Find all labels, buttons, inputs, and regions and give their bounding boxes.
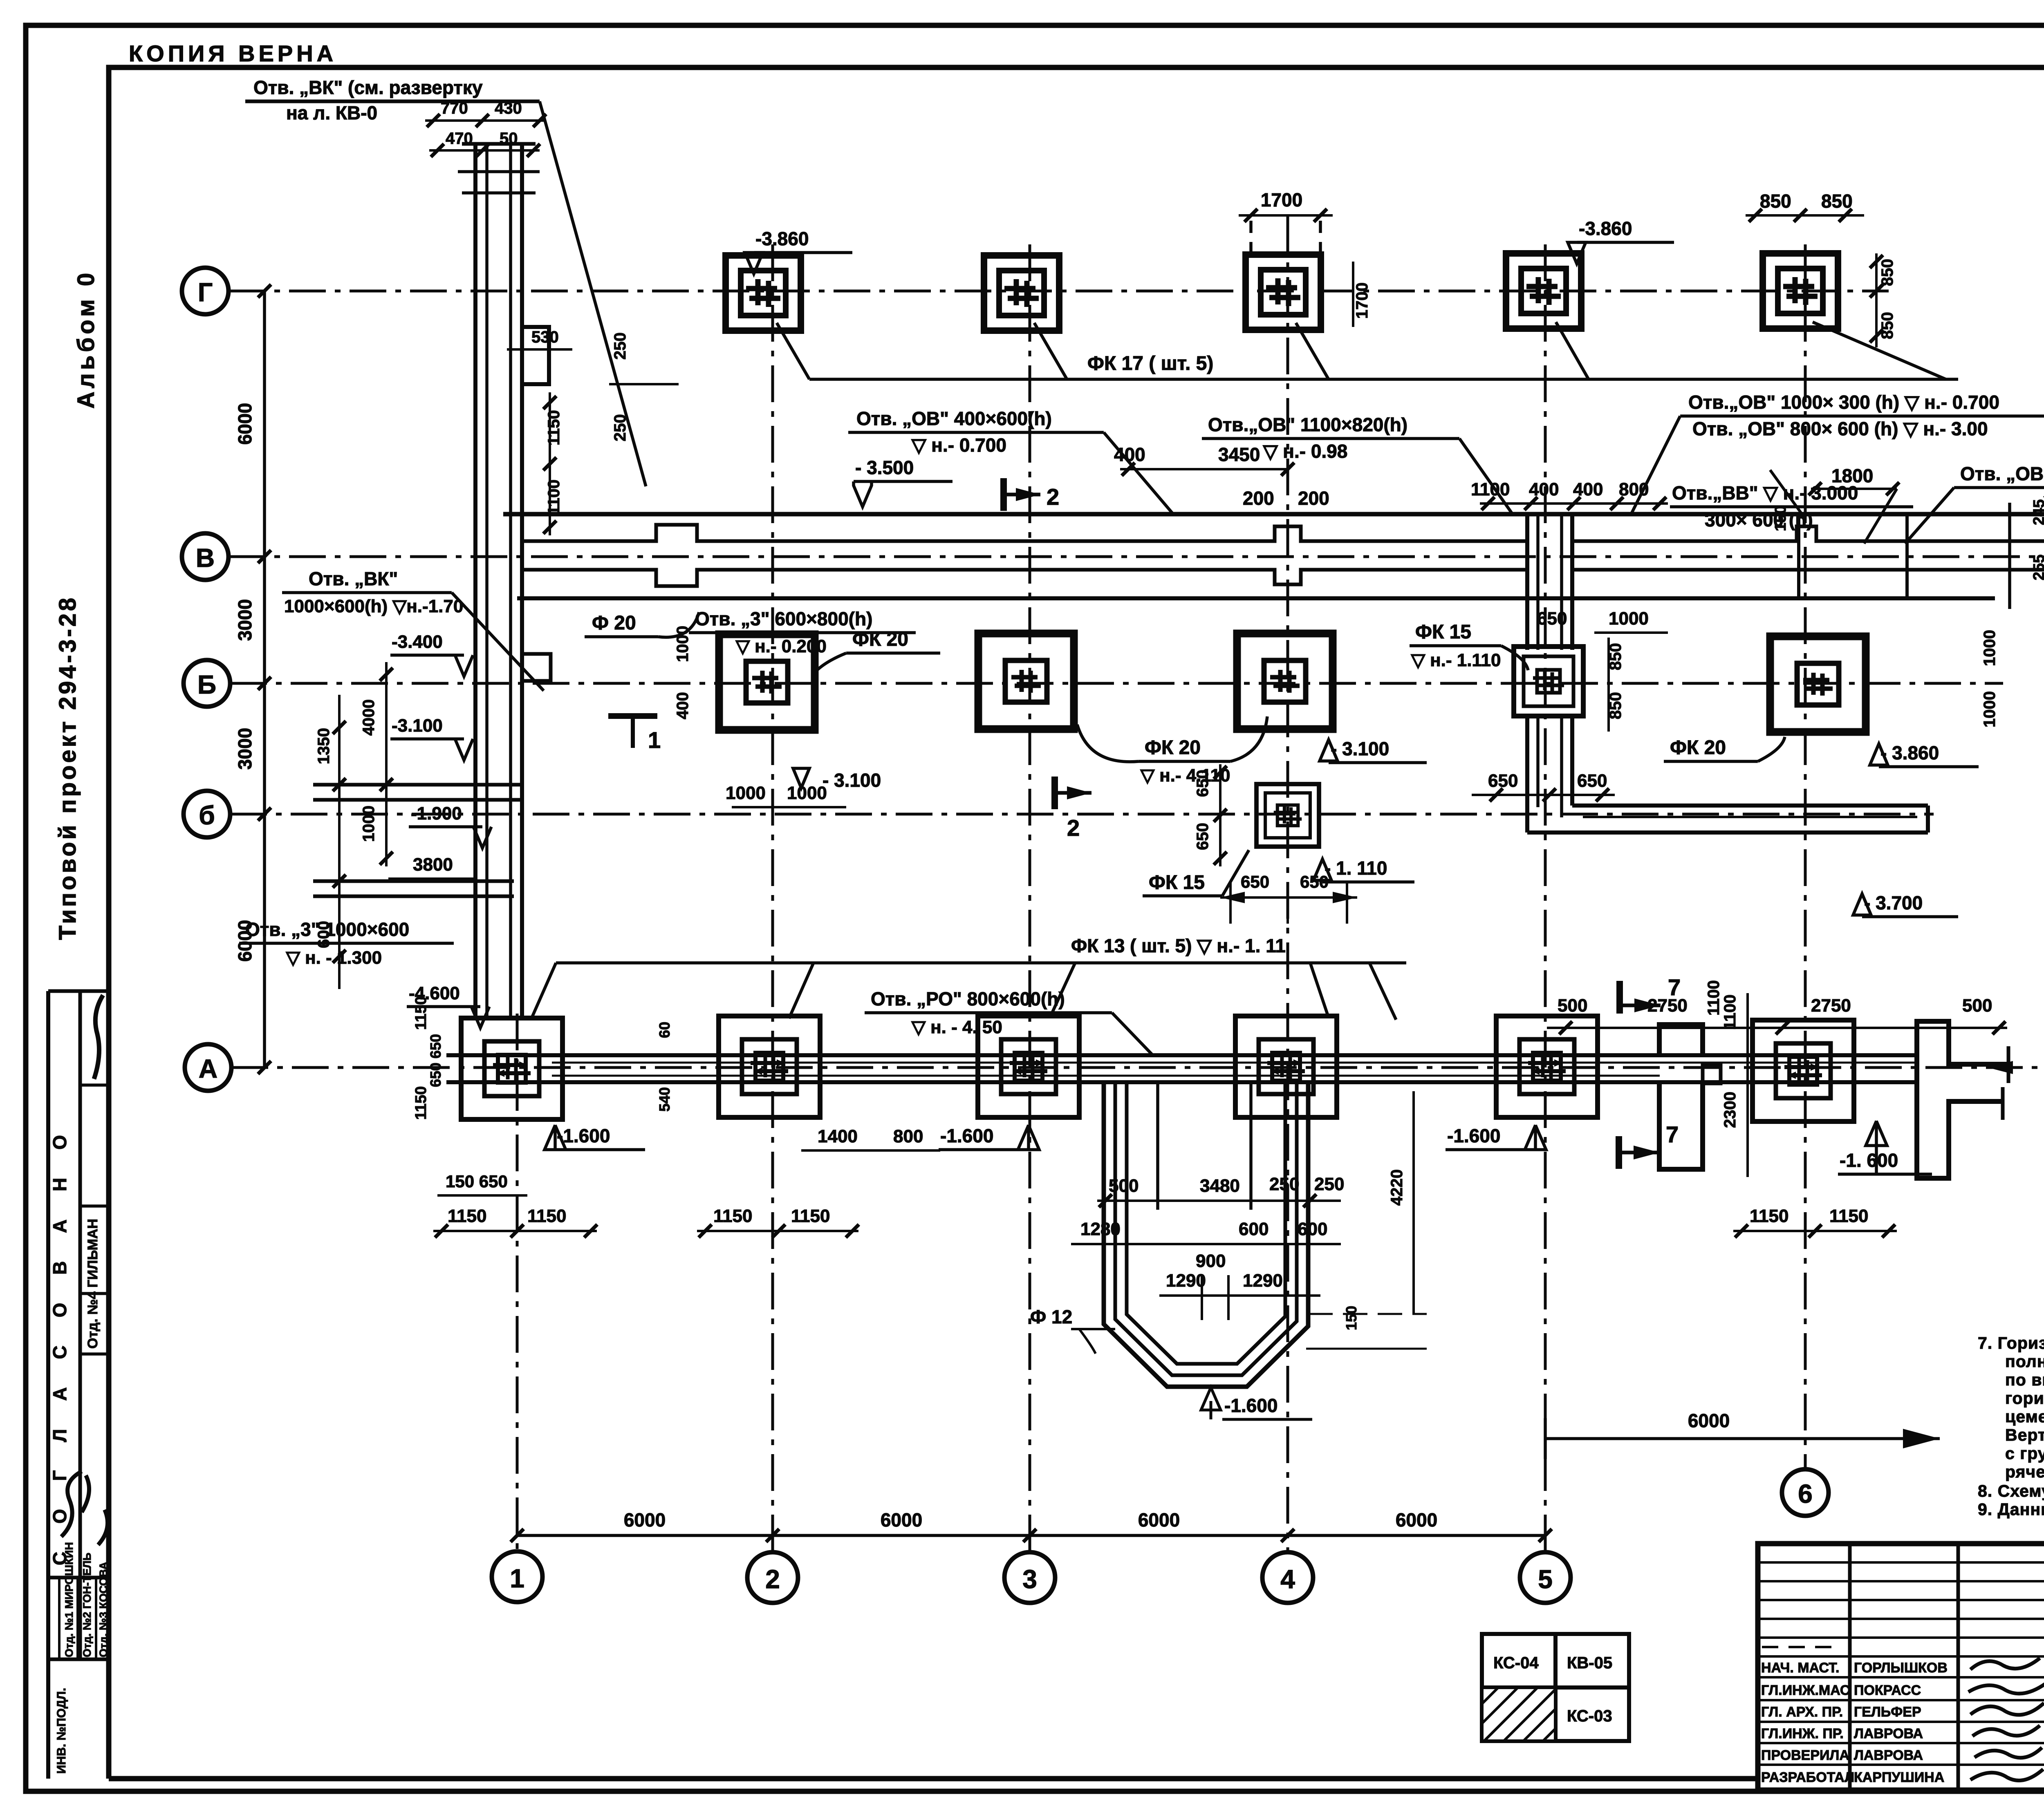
axis circle В	[182, 533, 229, 580]
svg-text:8. Схему, нормативных нагрузок: 8. Схему, нормативных нагрузок на фундам…	[1978, 1482, 2044, 1500]
svg-text:600: 600	[1298, 1219, 1327, 1239]
row В wall lower footing line	[517, 596, 1995, 600]
svg-text:250: 250	[611, 414, 629, 441]
svg-text:430: 430	[495, 99, 522, 117]
svg-text:800: 800	[893, 1126, 923, 1146]
pier Г/3 ФК17	[984, 255, 1059, 331]
wall notch at row Б junction	[522, 654, 551, 681]
svg-text:400: 400	[1529, 479, 1559, 499]
svg-text:Отв. „ОВ" и „3" 1800×400(h): Отв. „ОВ" и „3" 1800×400(h)	[1960, 463, 2044, 484]
svg-text:1000: 1000	[787, 783, 827, 803]
svg-text:ГЕЛЬФЕР: ГЕЛЬФЕР	[1854, 1704, 1921, 1720]
svg-text:КС-03: КС-03	[1567, 1707, 1612, 1725]
svg-text:на л. КВ-0: на л. КВ-0	[286, 102, 377, 123]
svg-text:150: 150	[1343, 1306, 1360, 1330]
pier Г/2 ФК17	[726, 255, 801, 331]
T-wall 2 end ticks	[2007, 1046, 2010, 1083]
svg-text:7: 7	[1666, 1121, 1679, 1147]
left dimension chain line	[263, 291, 266, 1068]
pier А/5	[1496, 1016, 1598, 1117]
axis 4 dashed extension	[1249, 221, 1253, 262]
section mark 2 upper	[1000, 478, 1007, 511]
svg-text:Отв. „3" 600×800(h): Отв. „3" 600×800(h)	[695, 608, 872, 629]
pier А/2	[719, 1016, 820, 1117]
pier Б/4 ФК20	[1237, 633, 1333, 729]
axis circle А	[185, 1044, 231, 1091]
svg-text:1100: 1100	[545, 479, 563, 515]
svg-text:Альбом 0: Альбом 0	[73, 270, 99, 409]
svg-text:60: 60	[656, 1022, 673, 1038]
svg-text:500: 500	[1962, 996, 1992, 1016]
svg-text:4220: 4220	[1388, 1169, 1406, 1206]
left row lines	[1758, 1561, 2044, 1564]
section mark 7 lower	[1616, 1136, 1622, 1169]
svg-text:1150: 1150	[713, 1206, 752, 1226]
pier А/1	[461, 1018, 563, 1119]
row б' wall band	[1527, 806, 1928, 833]
svg-text:250: 250	[1314, 1174, 1344, 1194]
pier А/4	[1235, 1016, 1337, 1117]
svg-text:ФК 20: ФК 20	[852, 629, 908, 650]
svg-text:650: 650	[1537, 609, 1567, 629]
svg-text:1290: 1290	[1243, 1271, 1283, 1291]
svg-text:7. Горизонтальную гидроизоляци: 7. Горизонтальную гидроизоляцию кирпичны…	[1978, 1334, 2044, 1352]
legend hatched cell	[1484, 1689, 1554, 1739]
svg-text:горизонтальная гидроизоляция: горизонтальная гидроизоляция стен подвал…	[2005, 1389, 2044, 1408]
wall opening at axis 6 row В	[1797, 514, 1800, 598]
axis circle 4	[1262, 1552, 1313, 1603]
axis Б line	[230, 682, 2003, 685]
axis 5 line	[1544, 244, 1547, 1551]
svg-text:-1.600: -1.600	[1224, 1395, 1277, 1416]
svg-text:1150: 1150	[412, 996, 430, 1030]
svg-text:1280: 1280	[1080, 1219, 1121, 1239]
svg-text:- 3.860: - 3.860	[1880, 742, 1939, 763]
svg-text:1: 1	[648, 727, 661, 753]
svg-text:ФК 20: ФК 20	[1145, 737, 1201, 759]
svg-text:6000: 6000	[1396, 1509, 1437, 1531]
svg-text:1150: 1150	[791, 1206, 830, 1226]
svg-text:2: 2	[765, 1564, 780, 1594]
bottom dimension chain line	[517, 1534, 1545, 1537]
svg-text:850: 850	[1878, 312, 1896, 339]
pier Г/6 ФК17	[1763, 253, 1838, 329]
svg-text:6000: 6000	[881, 1509, 922, 1531]
svg-text:-1.900: -1.900	[411, 803, 462, 824]
svg-text:2300: 2300	[1721, 1092, 1739, 1128]
short walls left of strip between Б and б'	[313, 785, 520, 896]
svg-text:ГЛ. АРХ. ПР.: ГЛ. АРХ. ПР.	[1761, 1704, 1843, 1720]
svg-text:- 3.500: - 3.500	[855, 457, 914, 478]
axis б' line	[230, 813, 1934, 816]
section mark 1	[608, 713, 657, 719]
svg-text:▽ н.- 0.200: ▽ н.- 0.200	[735, 636, 827, 656]
left vertical wall strip near axis 1	[458, 144, 540, 1018]
axis circle Б	[184, 660, 230, 707]
dashed row	[1762, 1646, 1840, 1648]
svg-text:400: 400	[1114, 444, 1145, 465]
svg-text:Отд. №2 ГОН-ТЕЛЬ: Отд. №2 ГОН-ТЕЛЬ	[81, 1553, 93, 1657]
svg-text:500: 500	[1109, 1176, 1139, 1196]
svg-text:2750: 2750	[1811, 996, 1851, 1016]
svg-text:- 3.700: - 3.700	[1864, 892, 1923, 913]
svg-text:▽ н.- 1.110: ▽ н.- 1.110	[1411, 650, 1501, 670]
svg-text:1700: 1700	[1261, 189, 1302, 210]
signatures squiggles	[1968, 1658, 2044, 1781]
svg-text:3480: 3480	[1200, 1176, 1240, 1196]
axis circle 2	[747, 1552, 798, 1603]
svg-text:2: 2	[1047, 484, 1059, 510]
leaders from Г piers	[777, 322, 1946, 379]
svg-text:ГЛ.ИНЖ.МАС: ГЛ.ИНЖ.МАС	[1761, 1683, 1850, 1698]
svg-text:-3.860: -3.860	[1579, 218, 1632, 239]
svg-text:КАРПУШИНА: КАРПУШИНА	[1854, 1770, 1944, 1785]
svg-text:1400: 1400	[818, 1126, 858, 1146]
svg-text:Отв. „РО" 800×600(h): Отв. „РО" 800×600(h)	[871, 988, 1065, 1009]
svg-text:850: 850	[1878, 259, 1896, 286]
svg-text:ФК 17 ( шт. 5): ФК 17 ( шт. 5)	[1087, 353, 1213, 374]
svg-text:Ф 20: Ф 20	[592, 612, 636, 634]
svg-text:1000: 1000	[726, 783, 766, 803]
svg-text:2: 2	[1067, 815, 1080, 841]
svg-text:ФК 20: ФК 20	[1670, 737, 1726, 759]
svg-text:255: 255	[2031, 555, 2044, 580]
svg-text:цементного раствора состава 1:: цементного раствора состава 1:2 толщиной…	[2005, 1407, 2044, 1426]
svg-text:4000: 4000	[360, 699, 378, 736]
axis А line	[231, 1066, 2044, 1069]
dim 6000 5-6 arrow line	[1545, 1437, 1940, 1440]
svg-text:1000: 1000	[360, 806, 378, 842]
row А wall inner line	[552, 1062, 1917, 1064]
axis 3 line	[1029, 244, 1031, 1551]
svg-text:Отв.„ОВ" 1000× 300 (h) ▽ н.-: Отв.„ОВ" 1000× 300 (h) ▽ н.- 0.700	[1688, 392, 1999, 413]
left columns	[1848, 1544, 1852, 1790]
sidebar mini table columns	[58, 1578, 61, 1659]
sidebar signatures lower	[61, 1471, 108, 1545]
svg-text:Отв.„ОВ" 1100×820(h): Отв.„ОВ" 1100×820(h)	[1208, 414, 1407, 435]
svg-text:ГЛ.ИНЖ. ПР.: ГЛ.ИНЖ. ПР.	[1761, 1726, 1844, 1741]
svg-text:50: 50	[500, 130, 518, 148]
wall niche bump right of strip	[522, 327, 549, 384]
svg-text:▽ н. - 1.300: ▽ н. - 1.300	[286, 948, 382, 968]
svg-text:150 650: 150 650	[446, 1172, 508, 1191]
svg-text:5: 5	[1538, 1564, 1553, 1594]
svg-text:с грунтом, выполнять обмазкой: с грунтом, выполнять обмазкой поверхност…	[2005, 1444, 2044, 1463]
svg-text:6000: 6000	[1138, 1509, 1180, 1531]
sidebar box divider	[78, 991, 82, 1659]
svg-text:770: 770	[441, 99, 468, 117]
svg-text:250: 250	[1269, 1174, 1299, 1194]
svg-text:6: 6	[1798, 1479, 1813, 1508]
svg-text:650: 650	[1241, 872, 1269, 891]
svg-text:б: б	[199, 801, 215, 830]
pier Б/5 ФК15 on wall	[1514, 647, 1583, 716]
svg-text:▽ н.- 0.700: ▽ н.- 0.700	[911, 434, 1006, 456]
sidebar signature squiggle	[94, 995, 103, 1079]
svg-text:полнять из 2х слоев рубероида: полнять из 2х слоев рубероида на битумно…	[2005, 1351, 2044, 1371]
pool outer wall	[1104, 1084, 1308, 1387]
T-wall 2 right of axis 6	[1917, 1021, 2008, 1178]
svg-text:1150: 1150	[1750, 1206, 1788, 1226]
svg-text:Отд. №1 МИРОШКИН: Отд. №1 МИРОШКИН	[63, 1542, 75, 1657]
svg-text:НАЧ. МАСТ.: НАЧ. МАСТ.	[1761, 1660, 1839, 1676]
svg-text:7: 7	[1668, 974, 1681, 1000]
svg-text:Отв. „ВК": Отв. „ВК"	[309, 568, 398, 589]
axis circle 5	[1520, 1552, 1571, 1603]
svg-text:470: 470	[446, 130, 473, 148]
svg-text:800: 800	[1619, 479, 1649, 499]
svg-text:650: 650	[1194, 823, 1212, 850]
svg-text:300× 600 (h): 300× 600 (h)	[1705, 509, 1813, 530]
svg-text:Отв. „ОВ" 400×600(h): Отв. „ОВ" 400×600(h)	[856, 408, 1052, 429]
svg-text:6000: 6000	[624, 1509, 666, 1531]
svg-text:ПОКРАСС: ПОКРАСС	[1854, 1683, 1921, 1698]
svg-text:850: 850	[1760, 190, 1791, 212]
svg-text:1150: 1150	[545, 410, 563, 445]
svg-text:Вертикальную гидроизоляцию сте: Вертикальную гидроизоляцию стен, соприка…	[2005, 1426, 2044, 1444]
svg-text:▽ н.- 0.98: ▽ н.- 0.98	[1262, 441, 1347, 462]
svg-text:ПРОВЕРИЛА: ПРОВЕРИЛА	[1761, 1748, 1849, 1763]
svg-text:Отв. „3" 1000×600: Отв. „3" 1000×600	[245, 919, 409, 940]
row А wall upper edge	[446, 1053, 1917, 1057]
svg-text:ГОРЛЫШКОВ: ГОРЛЫШКОВ	[1854, 1660, 1948, 1676]
svg-text:1000: 1000	[1609, 609, 1649, 629]
svg-text:А: А	[199, 1054, 217, 1083]
svg-text:1100: 1100	[1705, 980, 1723, 1016]
svg-text:9. Данный лист читать с лл.: 9. Данный лист читать с лл. КС-03 ÷ КС-0…	[1978, 1500, 2044, 1519]
svg-text:-1.600: -1.600	[557, 1125, 610, 1146]
svg-text:ИНВ. №ПОДЛ.: ИНВ. №ПОДЛ.	[55, 1688, 68, 1774]
vertical wall strip between В and Б near axis 5	[1527, 514, 1572, 817]
row В right end ticks	[2008, 503, 2011, 609]
svg-text:КВ-05: КВ-05	[1567, 1654, 1612, 1672]
svg-text:850: 850	[1821, 190, 1853, 212]
svg-text:6000: 6000	[1688, 1410, 1730, 1431]
svg-text:650: 650	[1194, 770, 1212, 797]
svg-text:по выровненной цементным раств: по выровненной цементным раствором повер…	[2005, 1370, 2044, 1389]
svg-text:Типовой проект 294-3-28: Типовой проект 294-3-28	[54, 595, 81, 940]
T-wall 1 notch	[1703, 1065, 1721, 1083]
row В wall lower edge	[522, 570, 2044, 586]
svg-text:Г: Г	[198, 278, 213, 307]
pier Б/2 ФК20	[719, 634, 815, 730]
svg-text:РАЗРАБОТАЛ: РАЗРАБОТАЛ	[1761, 1770, 1854, 1785]
svg-text:1: 1	[510, 1564, 524, 1593]
svg-text:1000: 1000	[674, 626, 692, 662]
svg-text:- 1. 110: - 1. 110	[1325, 857, 1387, 879]
svg-text:-1. 600: -1. 600	[1840, 1150, 1898, 1171]
svg-text:540: 540	[656, 1087, 673, 1112]
svg-text:- 3.100: - 3.100	[823, 770, 881, 791]
axis В line	[229, 555, 2044, 558]
svg-text:1350: 1350	[315, 728, 333, 764]
svg-text:Отд. №3 КОСОВА: Отд. №3 КОСОВА	[97, 1562, 110, 1657]
svg-text:3: 3	[1022, 1564, 1037, 1594]
pier Г/5 ФК17	[1506, 253, 1581, 329]
svg-text:-3.100: -3.100	[392, 716, 443, 736]
axis circle 1	[492, 1551, 542, 1602]
svg-text:КС-04: КС-04	[1493, 1654, 1539, 1672]
svg-text:-1.600: -1.600	[1447, 1125, 1500, 1146]
svg-text:400: 400	[674, 692, 692, 719]
signature rows texts	[1761, 1660, 1948, 1785]
sidebar cell lines	[80, 1083, 109, 1087]
row В wall upper footing line	[503, 512, 2044, 517]
svg-text:600: 600	[1239, 1219, 1269, 1239]
svg-text:1150: 1150	[448, 1206, 486, 1226]
T-wall 1 between axes 5 and 6	[1659, 1025, 1703, 1169]
svg-text:3450: 3450	[1218, 444, 1260, 465]
svg-text:1000×600(h) ▽н.-1.70: 1000×600(h) ▽н.-1.70	[284, 596, 463, 616]
svg-text:ЛАВРОВА: ЛАВРОВА	[1854, 1726, 1923, 1741]
pier Б/6 ФК20	[1770, 636, 1866, 732]
svg-text:650: 650	[427, 1034, 444, 1059]
svg-text:1150: 1150	[412, 1086, 430, 1120]
svg-text:1100: 1100	[1721, 994, 1739, 1030]
svg-text:6000: 6000	[234, 403, 255, 445]
svg-text:1150: 1150	[1829, 1206, 1868, 1226]
svg-text:1000: 1000	[1981, 691, 1999, 727]
arrow on axis А right end	[1988, 1061, 2013, 1074]
pool middle wall	[1115, 1084, 1297, 1375]
pool inner wall	[1127, 1084, 1285, 1364]
leader to wall strip	[540, 101, 646, 486]
svg-text:1800: 1800	[1831, 465, 1873, 486]
svg-text:Отв.„ВВ" ▽ н.- 3.000: Отв.„ВВ" ▽ н.- 3.000	[1672, 482, 1858, 504]
pier А/3	[978, 1016, 1079, 1117]
svg-text:ЛАВРОВА: ЛАВРОВА	[1854, 1748, 1923, 1763]
svg-text:-1.600: -1.600	[940, 1125, 993, 1146]
svg-text:1290: 1290	[1166, 1271, 1206, 1291]
svg-text:ФК 15: ФК 15	[1415, 621, 1471, 643]
svg-text:200: 200	[1243, 488, 1274, 509]
axis circle б'	[184, 791, 230, 837]
svg-text:Отд. №4 ГИЛЬМАН: Отд. №4 ГИЛЬМАН	[85, 1219, 101, 1349]
svg-text:▽ н. - 4. 50: ▽ н. - 4. 50	[911, 1017, 1002, 1037]
svg-text:Б: Б	[197, 670, 216, 699]
svg-text:3800: 3800	[413, 855, 453, 875]
svg-text:Отв. „ВК" (см. развертку: Отв. „ВК" (см. развертку	[253, 77, 483, 98]
svg-text:В: В	[196, 543, 215, 573]
axis Г line	[229, 290, 1889, 293]
svg-text:3000: 3000	[234, 599, 255, 641]
svg-text:150: 150	[1772, 506, 1789, 531]
svg-text:4: 4	[1280, 1564, 1295, 1594]
sidebar box left line	[46, 991, 50, 1779]
svg-text:900: 900	[1196, 1251, 1226, 1271]
axis 1 line	[516, 1014, 519, 1551]
svg-text:КОПИЯ ВЕРНА: КОПИЯ ВЕРНА	[129, 40, 337, 66]
svg-text:Отв. „ОВ" 800× 600 (h) ▽ н.-: Отв. „ОВ" 800× 600 (h) ▽ н.- 3.00	[1692, 418, 1988, 439]
svg-text:3000: 3000	[234, 728, 255, 770]
row В wall upper edge	[522, 525, 2044, 541]
svg-text:1000: 1000	[1981, 630, 1999, 666]
axis 6 line	[1804, 244, 1807, 1468]
svg-text:500: 500	[1558, 996, 1587, 1016]
axis circle 3	[1004, 1552, 1055, 1603]
svg-text:1150: 1150	[527, 1206, 566, 1226]
axis 2 line	[771, 244, 774, 1551]
svg-text:ФК 15: ФК 15	[1149, 872, 1205, 893]
svg-text:-3.400: -3.400	[392, 632, 443, 652]
svg-text:1700: 1700	[1353, 282, 1371, 319]
pier А/6	[1753, 1020, 1854, 1121]
left small dimension chain	[338, 695, 341, 989]
pool channel right	[1249, 1084, 1253, 1210]
axis circle 6	[1782, 1469, 1829, 1516]
svg-text:200: 200	[1298, 488, 1329, 509]
pier Г/4 ФК17	[1246, 255, 1321, 330]
axis 4 line	[1286, 217, 1289, 1551]
svg-text:ФК 13 ( шт. 5) ▽ н.- 1. 11: ФК 13 ( шт. 5) ▽ н.- 1. 11	[1071, 935, 1286, 956]
pier Б/3 ФК20	[978, 633, 1074, 729]
svg-text:- 3.100: - 3.100	[1331, 738, 1389, 759]
svg-text:650: 650	[1488, 771, 1518, 791]
svg-text:рячей битумной мастикой за 2 р: рячей битумной мастикой за 2 раза.	[2005, 1462, 2044, 1481]
svg-text:400: 400	[1573, 479, 1603, 499]
svg-text:1100: 1100	[1471, 479, 1510, 499]
svg-text:245: 245	[2031, 499, 2044, 525]
svg-text:-3.860: -3.860	[755, 228, 809, 249]
axis circle Г	[182, 268, 229, 314]
pier б'/4 ФК15	[1257, 784, 1319, 847]
row А wall lower edge	[446, 1080, 1917, 1084]
pool channel left	[1156, 1084, 1159, 1210]
svg-text:250: 250	[611, 332, 629, 360]
sidebar top divider	[48, 989, 109, 993]
section mark 7 upper	[1616, 981, 1623, 1014]
svg-text:Ф 12: Ф 12	[1030, 1306, 1072, 1327]
svg-text:650: 650	[427, 1063, 444, 1087]
svg-text:530: 530	[531, 328, 559, 346]
svg-text:650: 650	[1577, 771, 1607, 791]
section mark 2 lower	[1051, 777, 1058, 809]
